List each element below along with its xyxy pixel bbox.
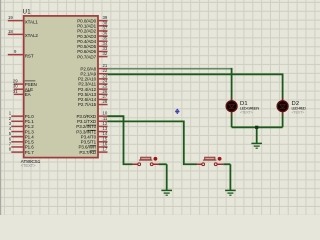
svg-text:19: 19 [8,15,13,20]
svg-text:XTAL1: XTAL1 [25,19,39,24]
svg-text:31: 31 [13,89,18,94]
svg-text:18: 18 [8,29,13,34]
svg-text:<TEXT>: <TEXT> [21,163,36,168]
svg-text:XTAL2: XTAL2 [25,33,39,38]
svg-text:32: 32 [103,51,108,56]
svg-text:<TEXT>: <TEXT> [292,109,306,114]
svg-text:28: 28 [103,99,108,104]
svg-text:<TEXT>: <TEXT> [240,109,254,114]
svg-text:P0.7/AD7: P0.7/AD7 [77,54,96,59]
svg-text:RST: RST [25,53,34,58]
svg-text:P2.7/A15: P2.7/A15 [78,102,97,107]
svg-text:EA: EA [25,92,31,97]
svg-text:17: 17 [103,147,108,152]
svg-text:U1: U1 [23,10,32,16]
svg-text:P1.7: P1.7 [25,150,35,155]
